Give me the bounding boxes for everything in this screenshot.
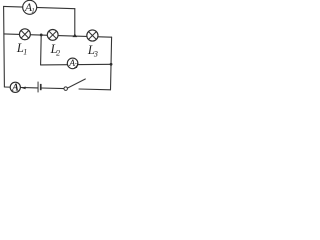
current arrow — [21, 87, 25, 90]
svg-text:2: 2 — [74, 61, 78, 70]
wire left rail — [3, 6, 6, 87]
svg-text:3: 3 — [93, 49, 98, 58]
battery BT short thick plate — [40, 84, 42, 90]
svg-text:2: 2 — [56, 48, 60, 57]
wire lamp row — [4, 34, 112, 37]
svg-text:1: 1 — [31, 7, 35, 15]
lamp L1 — [19, 29, 30, 40]
wire switch to bottom right corner segment — [79, 88, 111, 91]
battery BT long plate — [37, 82, 39, 93]
wire top rail — [4, 6, 75, 8]
switch S lever — [67, 79, 85, 88]
ammeter A2 — [67, 58, 78, 70]
wire A2 branch — [41, 63, 111, 66]
svg-text:1: 1 — [23, 48, 27, 57]
node A2-right junction — [110, 63, 113, 66]
label L2 — [50, 42, 61, 57]
wire branch drop from top rail to node J2 — [74, 9, 76, 37]
wire bottom left segment — [4, 86, 37, 89]
wire right rail — [111, 37, 112, 90]
svg-text:A: A — [11, 82, 19, 93]
label L3 — [87, 43, 98, 58]
wire drop from node J1 to A2 branch — [40, 35, 43, 65]
ammeter A1 — [23, 0, 37, 15]
lamp L2 — [47, 30, 58, 41]
node J1 — [40, 33, 43, 36]
switch S pivot — [64, 87, 68, 91]
wire battery to switch segment — [42, 87, 64, 90]
lamp L3 — [87, 30, 98, 41]
ammeter A — [10, 82, 20, 93]
node J2 arrow junction — [73, 34, 78, 38]
label L1 — [16, 41, 27, 57]
